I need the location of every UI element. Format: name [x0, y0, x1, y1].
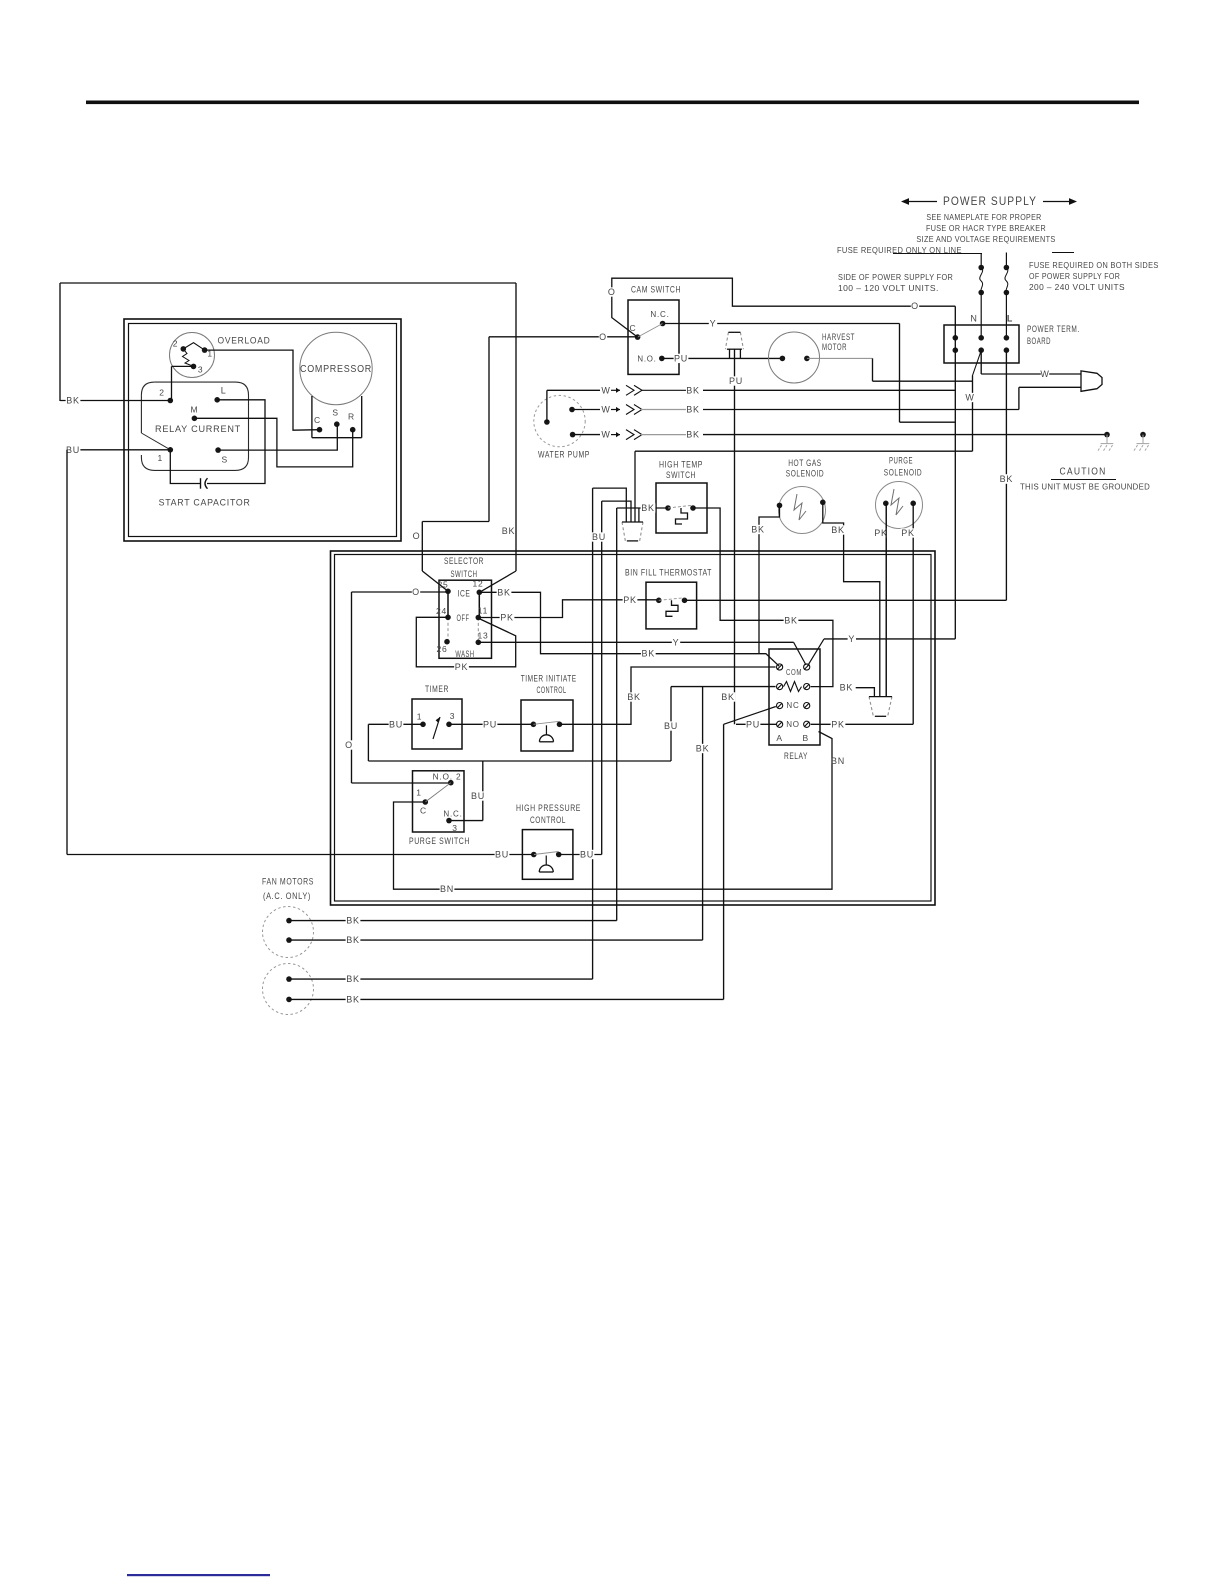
- svg-text:3: 3: [198, 365, 204, 375]
- svg-text:W: W: [965, 393, 974, 403]
- svg-text:24: 24: [436, 606, 447, 616]
- svg-text:BK: BK: [66, 396, 80, 406]
- svg-text:1: 1: [417, 712, 423, 722]
- svg-text:HIGH TEMP: HIGH TEMP: [659, 460, 703, 471]
- svg-text:BN: BN: [440, 884, 454, 894]
- svg-text:PURGE: PURGE: [889, 456, 913, 467]
- svg-text:13: 13: [477, 631, 488, 641]
- svg-text:2: 2: [159, 387, 165, 397]
- svg-text:N: N: [970, 314, 977, 324]
- svg-text:BK: BK: [721, 692, 735, 702]
- svg-text:BU: BU: [664, 721, 678, 731]
- svg-text:N.O. 2: N.O. 2: [433, 772, 462, 782]
- svg-text:CAM SWITCH: CAM SWITCH: [631, 285, 681, 296]
- svg-text:RELAY CURRENT: RELAY CURRENT: [155, 424, 241, 435]
- svg-text:O: O: [599, 332, 607, 342]
- svg-text:BK: BK: [346, 916, 360, 926]
- svg-text:SIDE OF POWER SUPPLY FOR: SIDE OF POWER SUPPLY FOR: [838, 272, 953, 282]
- svg-text:12: 12: [472, 579, 483, 589]
- svg-text:N.C.: N.C.: [650, 309, 669, 319]
- svg-text:BK: BK: [346, 935, 360, 945]
- svg-text:W: W: [1040, 369, 1049, 379]
- svg-text:C: C: [314, 415, 321, 425]
- svg-text:BN: BN: [831, 756, 845, 766]
- svg-text:WASH: WASH: [455, 649, 474, 659]
- svg-text:BK: BK: [686, 405, 700, 415]
- svg-text:BK: BK: [346, 974, 360, 984]
- svg-text:SIZE AND VOLTAGE REQUIREMENTS: SIZE AND VOLTAGE REQUIREMENTS: [916, 234, 1055, 244]
- svg-text:BK: BK: [641, 649, 655, 659]
- svg-text:M: M: [190, 405, 198, 415]
- svg-text:FUSE REQUIRED ON BOTH SIDES: FUSE REQUIRED ON BOTH SIDES: [1029, 260, 1159, 270]
- svg-text:3: 3: [450, 711, 456, 721]
- svg-text:BK: BK: [696, 744, 710, 754]
- svg-text:BK: BK: [784, 615, 798, 625]
- svg-text:BU: BU: [592, 532, 606, 542]
- svg-text:BK: BK: [627, 692, 641, 702]
- svg-text:PURGE SWITCH: PURGE SWITCH: [409, 836, 470, 847]
- svg-text:Y: Y: [848, 634, 855, 644]
- svg-text:SWITCH: SWITCH: [666, 470, 696, 481]
- svg-text:3: 3: [452, 823, 458, 833]
- svg-text:BK: BK: [346, 994, 360, 1004]
- svg-text:FUSE OR HACR TYPE BREAKER: FUSE OR HACR TYPE BREAKER: [926, 223, 1046, 233]
- svg-text:BU: BU: [580, 850, 594, 860]
- svg-text:BK: BK: [641, 503, 655, 513]
- svg-text:THIS UNIT MUST BE GROUNDED: THIS UNIT MUST BE GROUNDED: [1020, 482, 1150, 492]
- svg-text:BK: BK: [686, 385, 700, 395]
- svg-text:OF POWER SUPPLY FOR: OF POWER SUPPLY FOR: [1029, 271, 1120, 281]
- svg-text:NO: NO: [786, 720, 800, 729]
- svg-text:MOTOR: MOTOR: [822, 342, 847, 353]
- svg-text:25: 25: [437, 580, 448, 590]
- svg-text:PK: PK: [500, 613, 514, 623]
- svg-text:N.C.: N.C.: [443, 809, 462, 819]
- svg-text:O: O: [413, 531, 421, 541]
- svg-text:HOT GAS: HOT GAS: [788, 458, 822, 469]
- svg-text:Y: Y: [710, 319, 717, 329]
- svg-text:200 – 240 VOLT UNITS: 200 – 240 VOLT UNITS: [1029, 282, 1125, 292]
- svg-text:ICE: ICE: [458, 589, 471, 599]
- svg-text:BK: BK: [751, 525, 765, 535]
- svg-text:B: B: [803, 733, 809, 743]
- svg-text:BU: BU: [471, 791, 485, 801]
- svg-text:BOARD: BOARD: [1027, 336, 1051, 346]
- svg-text:PU: PU: [674, 353, 688, 363]
- svg-text:PK: PK: [901, 528, 915, 538]
- svg-text:SELECTOR: SELECTOR: [444, 556, 484, 567]
- svg-text:A: A: [776, 733, 782, 743]
- svg-text:COMPRESSOR: COMPRESSOR: [300, 364, 372, 375]
- svg-text:OVERLOAD: OVERLOAD: [218, 335, 271, 346]
- svg-text:R: R: [348, 412, 355, 422]
- svg-text:TIMER: TIMER: [425, 684, 449, 695]
- svg-text:BIN FILL THERMOSTAT: BIN FILL THERMOSTAT: [625, 568, 712, 579]
- svg-text:RELAY: RELAY: [784, 751, 808, 762]
- svg-text:1: 1: [416, 788, 422, 798]
- svg-text:BK: BK: [686, 430, 700, 440]
- svg-text:WATER PUMP: WATER PUMP: [538, 450, 590, 460]
- svg-text:CAUTION: CAUTION: [1060, 466, 1107, 478]
- svg-text:1: 1: [158, 453, 164, 463]
- svg-text:BU: BU: [389, 719, 403, 729]
- svg-text:(A.C. ONLY): (A.C. ONLY): [263, 891, 311, 901]
- svg-text:O: O: [911, 301, 919, 311]
- svg-text:OFF: OFF: [457, 613, 470, 623]
- svg-text:BK: BK: [831, 525, 845, 535]
- svg-text:NC: NC: [786, 701, 799, 710]
- svg-text:S: S: [222, 454, 228, 464]
- svg-text:BU: BU: [495, 850, 509, 860]
- svg-text:SEE NAMEPLATE FOR PROPER: SEE NAMEPLATE FOR PROPER: [926, 212, 1041, 222]
- svg-text:CONTROL: CONTROL: [537, 685, 567, 696]
- svg-text:W: W: [601, 385, 610, 395]
- svg-text:Y: Y: [673, 637, 680, 647]
- svg-text:BK: BK: [1000, 474, 1014, 484]
- svg-text:BK: BK: [502, 526, 516, 536]
- svg-text:PK: PK: [455, 662, 469, 672]
- svg-text:START CAPACITOR: START CAPACITOR: [159, 497, 251, 508]
- svg-text:PU: PU: [746, 719, 760, 729]
- svg-text:O: O: [345, 740, 353, 750]
- svg-text:BK: BK: [840, 683, 854, 693]
- svg-text:26: 26: [436, 644, 447, 654]
- svg-text:PK: PK: [623, 595, 637, 605]
- svg-text:CONTROL: CONTROL: [530, 815, 566, 826]
- svg-text:L: L: [1007, 314, 1013, 324]
- svg-text:W: W: [601, 405, 610, 415]
- svg-text:W: W: [601, 430, 610, 440]
- svg-text:BU: BU: [66, 445, 80, 455]
- svg-text:PK: PK: [831, 719, 845, 729]
- svg-text:100 – 120 VOLT UNITS.: 100 – 120 VOLT UNITS.: [838, 283, 939, 293]
- svg-text:POWER TERM.: POWER TERM.: [1027, 324, 1080, 334]
- svg-text:SOLENOID: SOLENOID: [786, 469, 824, 480]
- svg-text:11: 11: [478, 606, 488, 616]
- svg-text:SOLENOID: SOLENOID: [884, 468, 922, 479]
- svg-text:S: S: [332, 408, 338, 418]
- svg-text:TIMER INITIATE: TIMER INITIATE: [521, 674, 577, 685]
- svg-text:2: 2: [173, 339, 179, 349]
- svg-text:PU: PU: [729, 376, 743, 386]
- svg-text:COM: COM: [786, 668, 802, 677]
- svg-text:HIGH PRESSURE: HIGH PRESSURE: [516, 803, 581, 814]
- svg-text:N.O.: N.O.: [637, 353, 656, 363]
- svg-text:L: L: [221, 385, 227, 395]
- svg-text:FAN MOTORS: FAN MOTORS: [262, 877, 314, 887]
- svg-text:POWER SUPPLY: POWER SUPPLY: [943, 196, 1037, 208]
- svg-text:BK: BK: [497, 587, 511, 597]
- svg-text:O: O: [412, 587, 420, 597]
- svg-text:O: O: [608, 287, 616, 297]
- svg-text:PU: PU: [483, 719, 497, 729]
- svg-text:C: C: [420, 806, 427, 816]
